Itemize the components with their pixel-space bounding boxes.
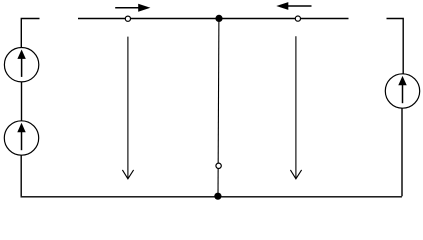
bottom wire [21,196,402,198]
wire I3 to bottom-right corner [401,108,403,196]
voltage arrow down (right middle) [290,36,301,179]
wire top-right corner segment [387,19,404,74]
terminal node (open circle, center bottom) [216,163,221,168]
junction dot (bottom center) [214,193,221,200]
wire between I1 and I2 [21,82,23,121]
current source I2 (lower left) [4,121,38,155]
junction dot (top center) [215,15,222,22]
terminal node (open circle, top left) [125,16,130,21]
current source I3 (right) [385,74,419,108]
terminal node (open circle, top right) [295,16,300,21]
center vertical wire [217,19,220,197]
current source I1 (upper left) [4,47,38,81]
current arrow right-pointing (top left) [115,4,150,12]
current arrow left-pointing (top right) [276,2,311,10]
voltage arrow down (left middle) [122,37,133,179]
wire I2 to bottom-left corner [20,155,22,196]
wire top-left corner segment [21,19,39,48]
top middle wire [78,18,349,20]
